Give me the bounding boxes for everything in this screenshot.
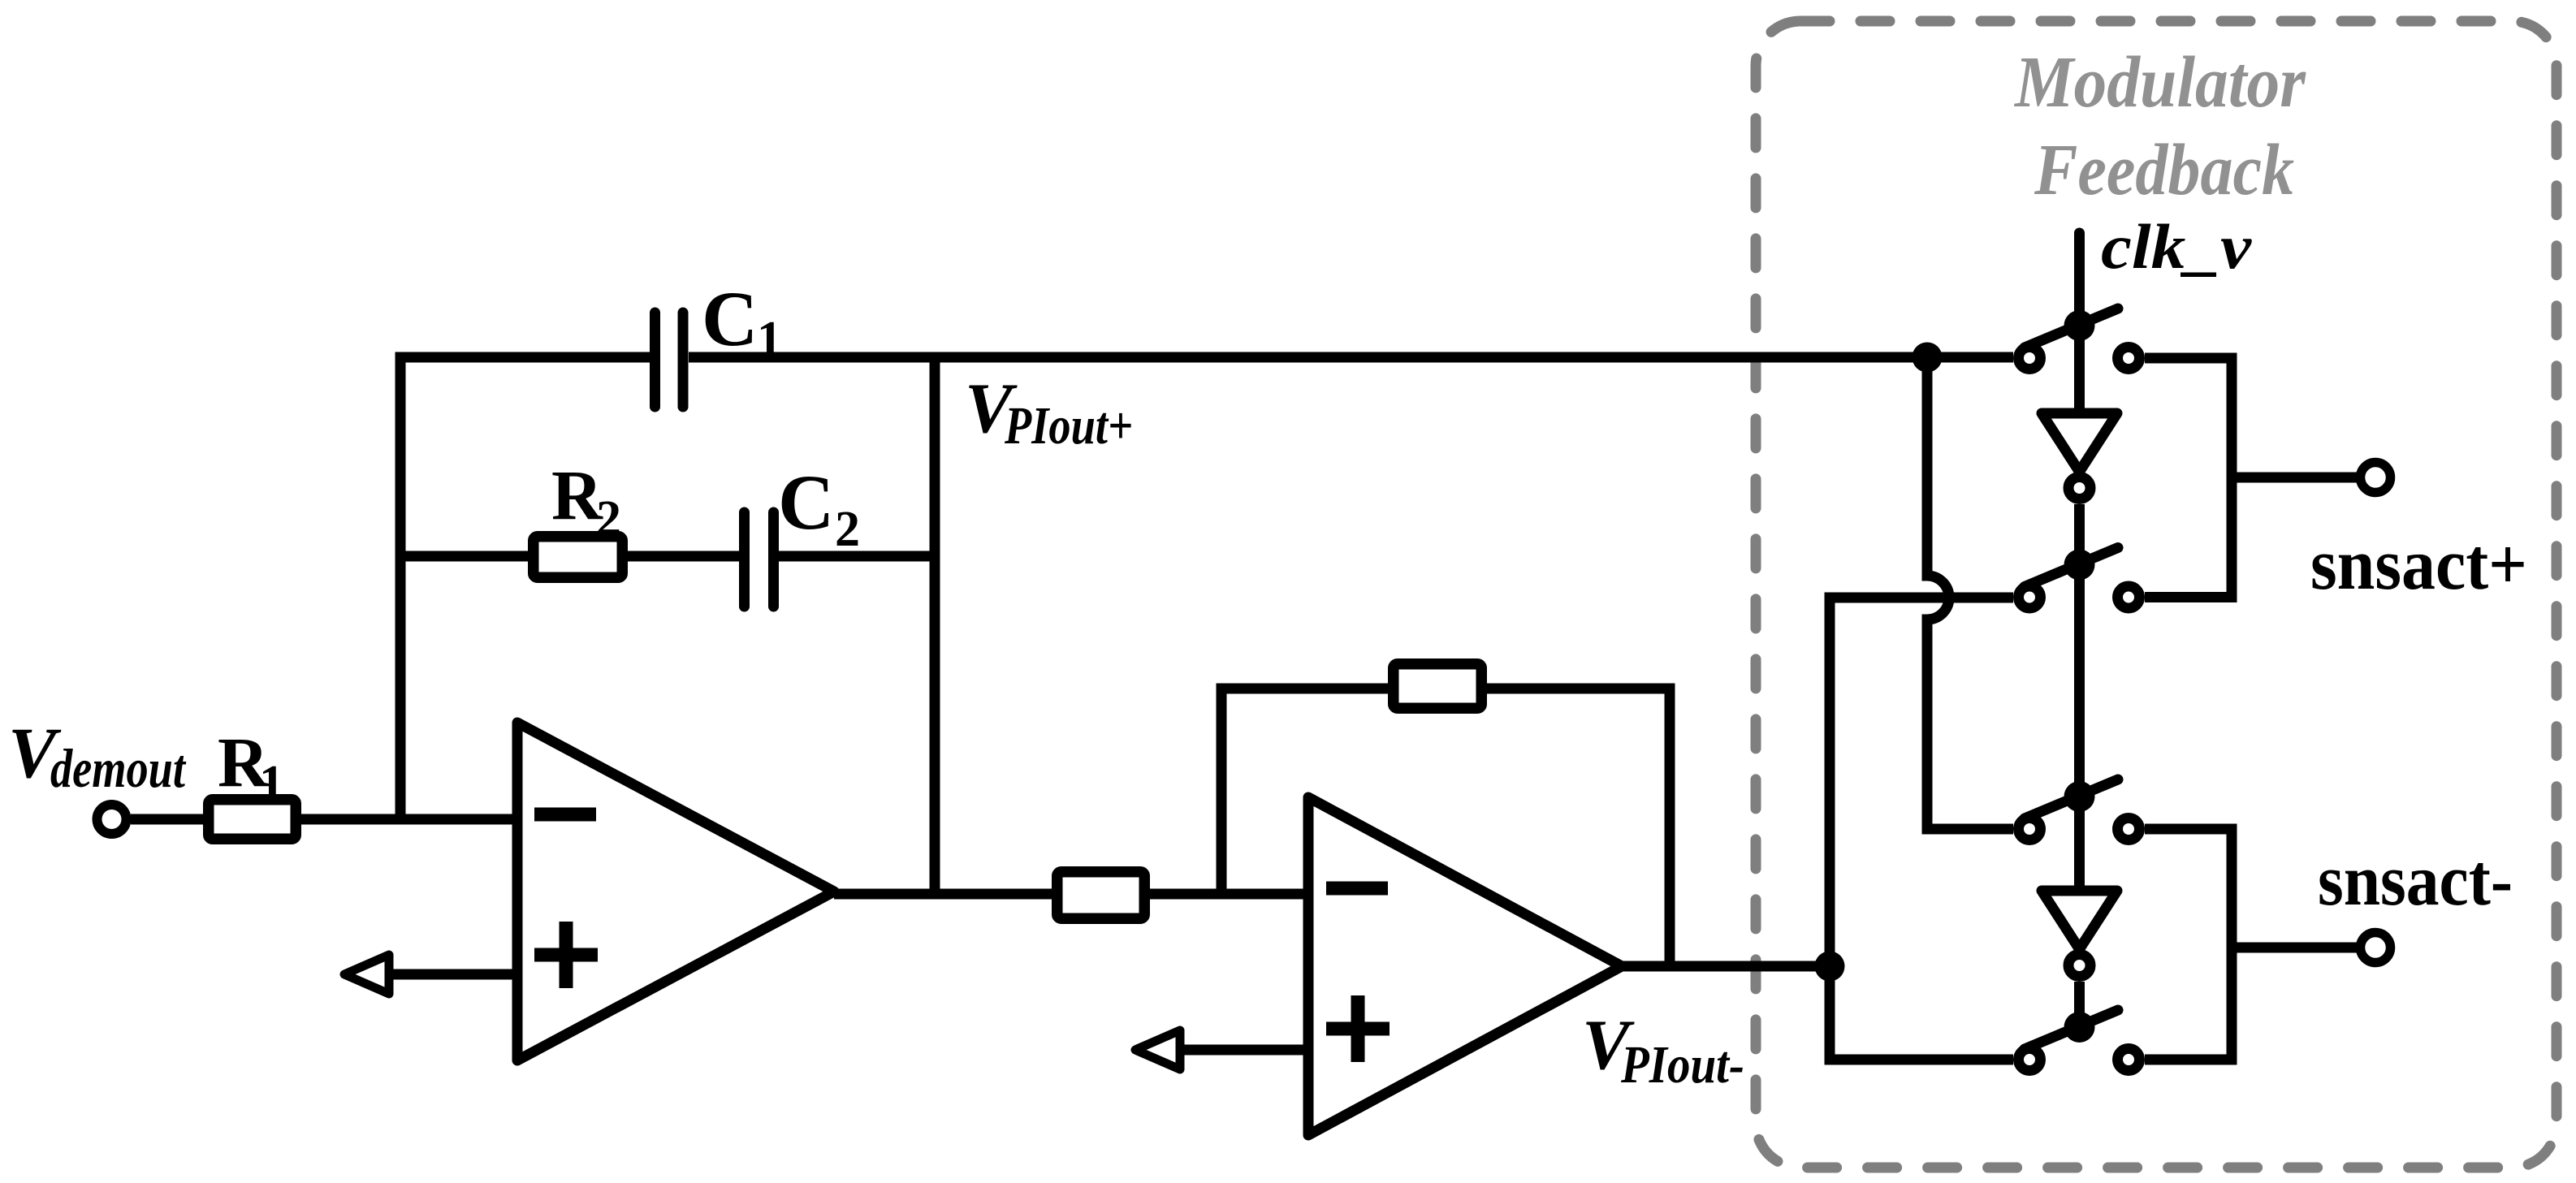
- svg-text:C: C: [702, 275, 758, 362]
- svg-text:Feedback: Feedback: [2034, 130, 2294, 210]
- svg-text:1: 1: [259, 756, 284, 811]
- svg-text:clk_v: clk_v: [2101, 211, 2252, 282]
- svg-text:PIout-: PIout-: [1620, 1035, 1744, 1094]
- svg-text:demout: demout: [50, 737, 187, 799]
- svg-text:snsact-: snsact-: [2318, 840, 2513, 921]
- svg-text:snsact+: snsact+: [2310, 525, 2527, 605]
- svg-text:2: 2: [596, 491, 621, 546]
- svg-text:C: C: [778, 459, 834, 546]
- svg-text:2: 2: [835, 502, 860, 557]
- svg-text:Modulator: Modulator: [2013, 42, 2306, 123]
- svg-text:PIout+: PIout+: [1004, 396, 1133, 455]
- svg-text:1: 1: [757, 312, 782, 367]
